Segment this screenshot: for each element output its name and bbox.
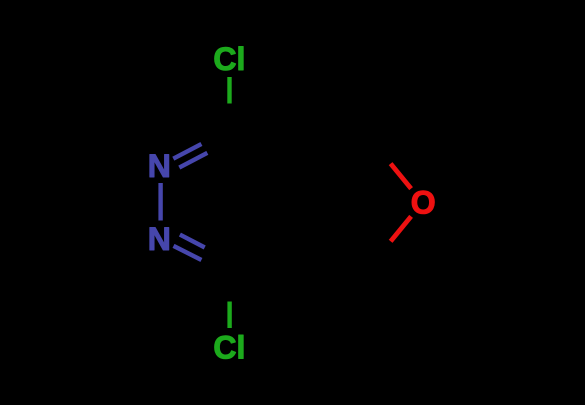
svg-text:N: N <box>148 221 171 257</box>
bond C7a-C4a fusion (carbon, invisible) <box>298 165 302 238</box>
svg-text:N: N <box>148 148 171 184</box>
svg-text:Cl: Cl <box>213 330 245 366</box>
bond C7a-C7 (carbon, invisible) <box>300 139 370 166</box>
bond C4-Cl(bottom) carbon half <box>227 274 231 302</box>
bond Cl(top)-C1 green half <box>227 77 231 104</box>
bond O-C5 red half <box>391 216 412 241</box>
bond C1=N2 main line carbon half <box>202 129 230 144</box>
bond Cl(top)-C1 carbon half <box>227 104 231 130</box>
bond O-C5 carbon half <box>370 241 391 265</box>
svg-text:O: O <box>411 184 436 220</box>
bond C7-O red half <box>391 164 412 189</box>
bond N2-N3 <box>158 183 162 221</box>
bond N3=C4 main line blue half <box>174 246 202 260</box>
svg-text:Cl: Cl <box>213 41 245 77</box>
bond N3=C4 main line carbon half <box>202 260 230 274</box>
bond C4-Cl(bottom) green half <box>227 302 231 329</box>
bond N3=C4 inner line carbon half <box>205 248 222 257</box>
bond C7-O carbon half <box>370 139 391 164</box>
bond C1=N2 inner line carbon half <box>207 145 222 153</box>
bond N3=C4 inner line blue half <box>180 235 205 248</box>
bond C1=N2 inner line blue half <box>179 153 207 168</box>
bond C4-C4a (carbon, invisible) <box>230 238 300 274</box>
bond C1=N2 main line blue half <box>173 144 201 159</box>
bond C4a-C5 (carbon, invisible) <box>300 238 370 266</box>
bond C1-C7a (carbon, invisible) <box>230 129 300 165</box>
